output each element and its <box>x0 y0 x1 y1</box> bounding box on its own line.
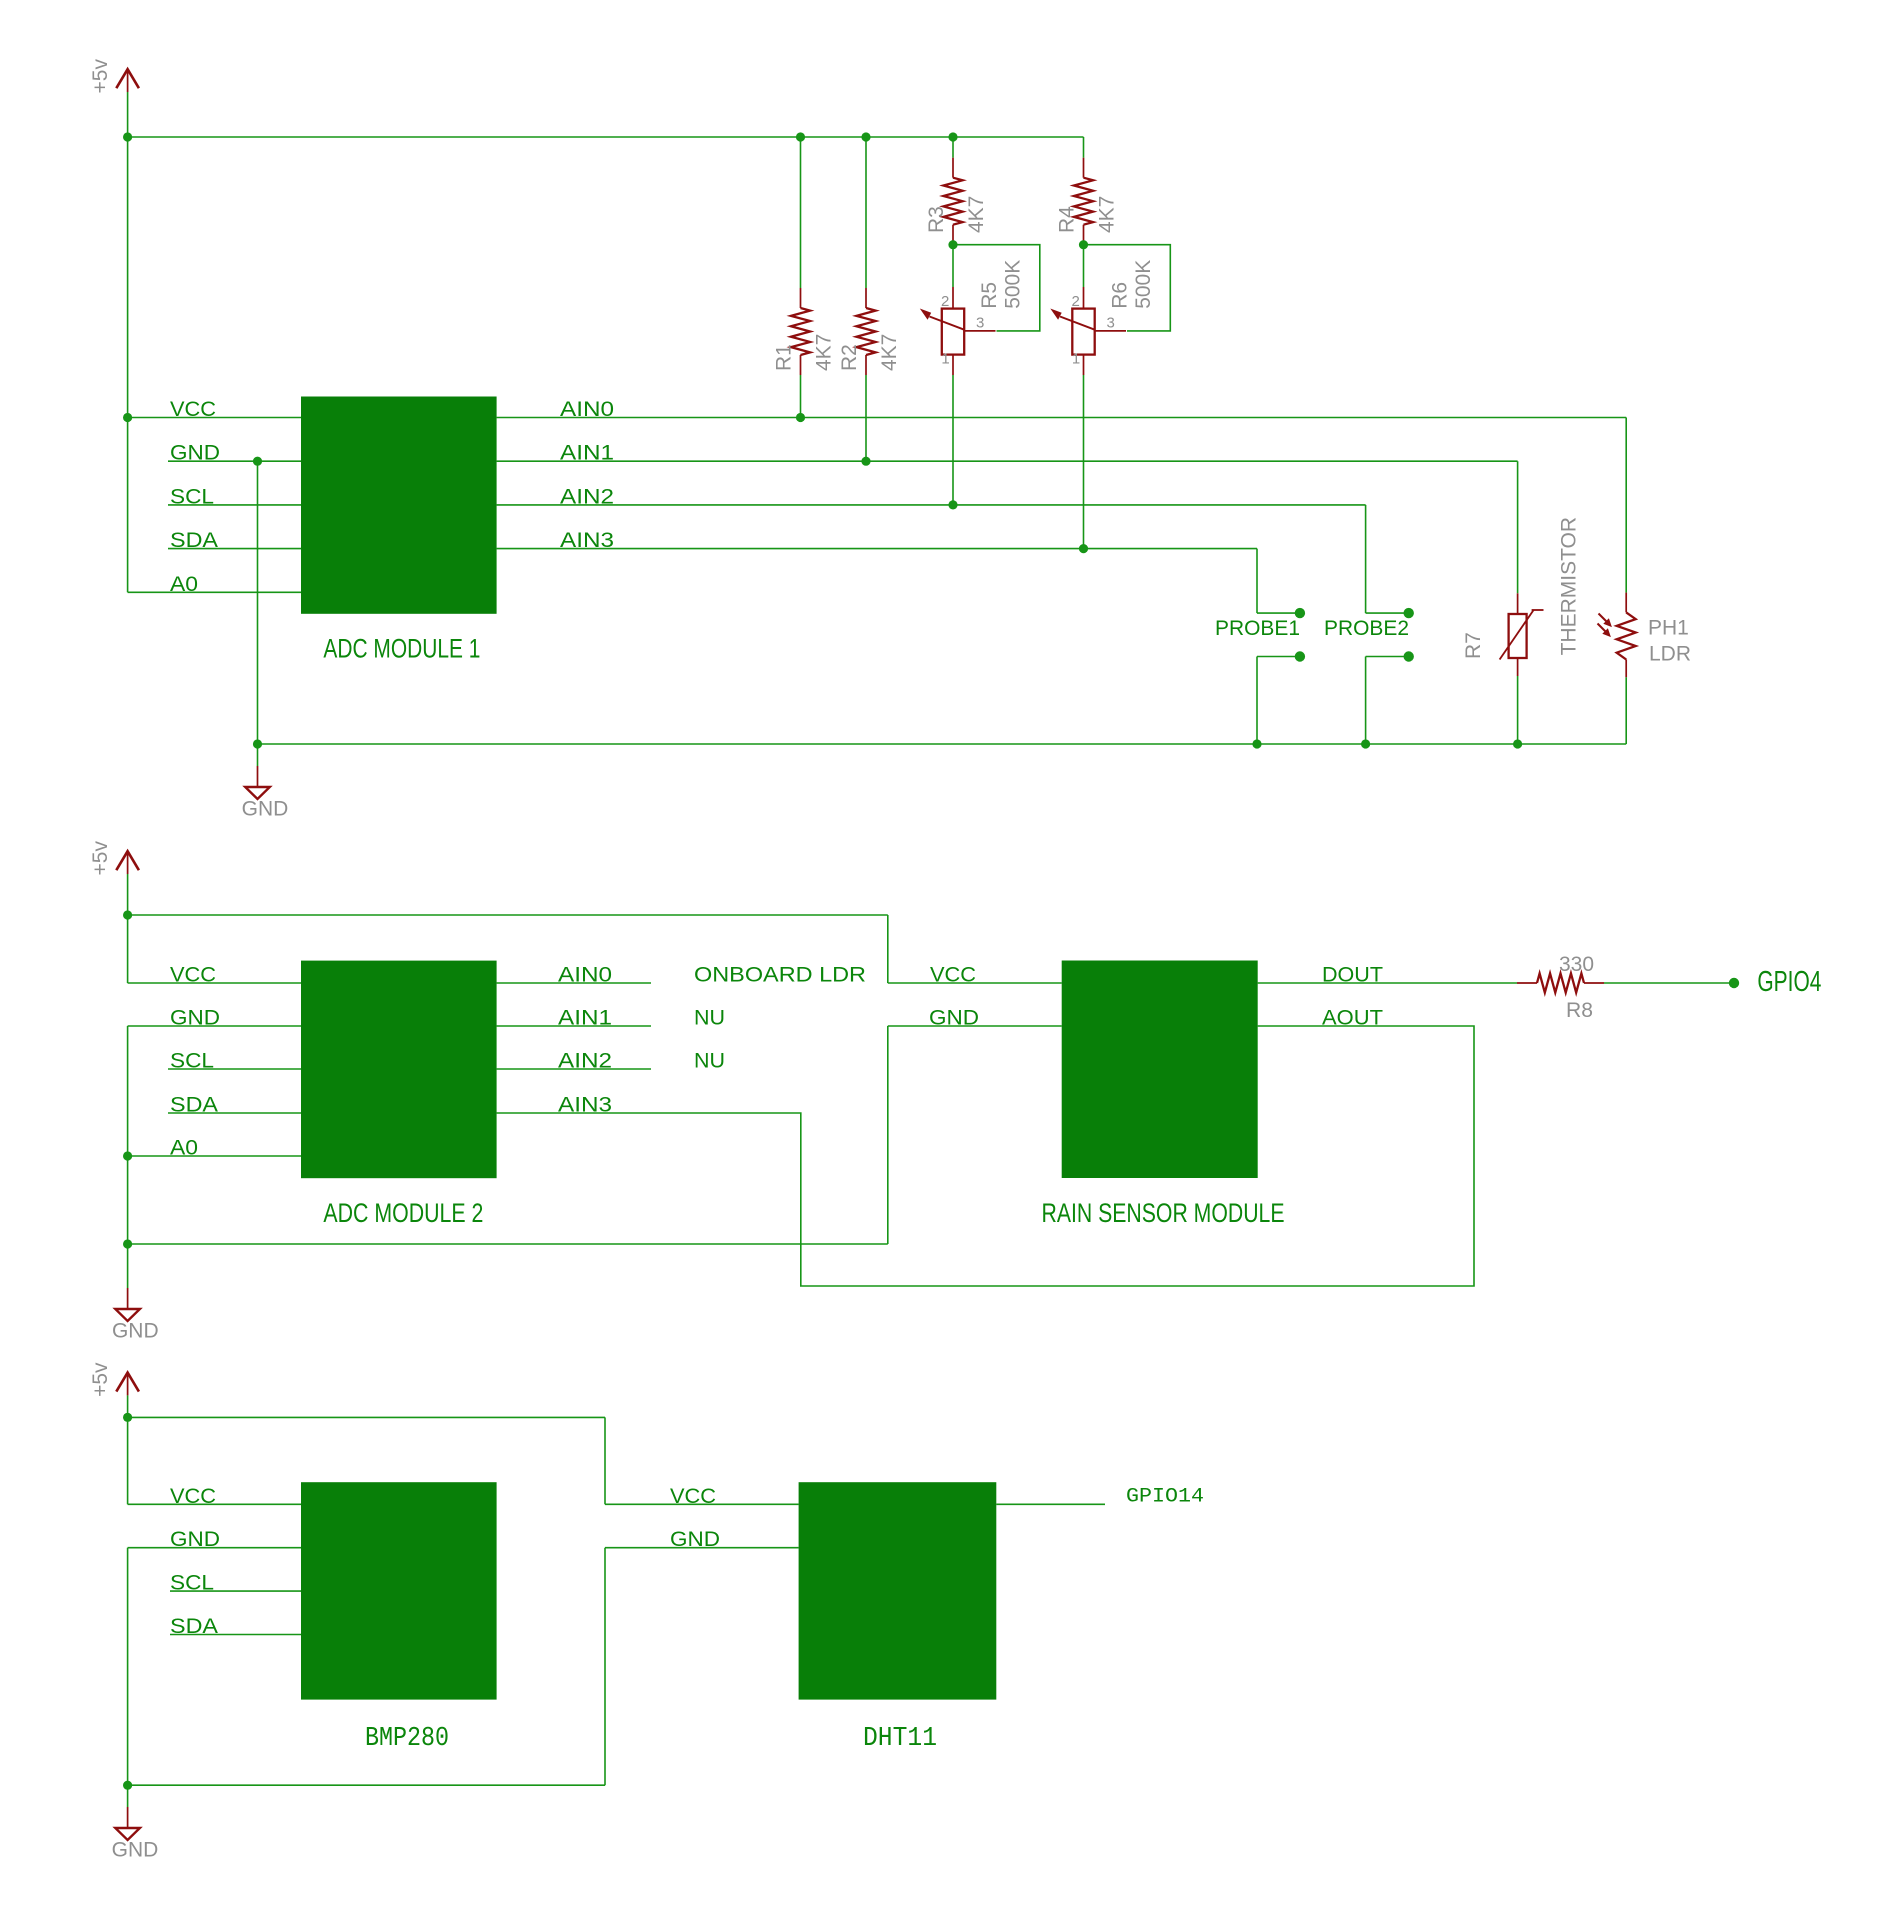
svg-text:SCL: SCL <box>170 485 214 508</box>
svg-text:BMP280: BMP280 <box>365 1724 449 1754</box>
svg-text:AIN0: AIN0 <box>558 964 612 987</box>
svg-text:AIN3: AIN3 <box>560 529 614 552</box>
svg-text:AIN2: AIN2 <box>560 485 614 508</box>
svg-text:330: 330 <box>1559 953 1594 976</box>
svg-text:SCL: SCL <box>170 1050 214 1073</box>
svg-text:R5: R5 <box>978 282 1001 309</box>
svg-text:2: 2 <box>1071 293 1079 310</box>
svg-text:ONBOARD LDR: ONBOARD LDR <box>694 964 866 987</box>
svg-text:GND: GND <box>242 798 289 821</box>
svg-text:AIN1: AIN1 <box>560 442 614 465</box>
svg-text:SDA: SDA <box>170 1094 218 1117</box>
svg-text:AIN3: AIN3 <box>558 1094 612 1117</box>
svg-text:500K: 500K <box>1132 260 1155 309</box>
svg-text:R8: R8 <box>1566 999 1593 1022</box>
svg-text:GND: GND <box>112 1320 159 1343</box>
svg-text:R2: R2 <box>838 344 861 371</box>
svg-text:NU: NU <box>694 1050 725 1073</box>
svg-text:VCC: VCC <box>670 1485 716 1508</box>
svg-text:AIN0: AIN0 <box>560 398 614 421</box>
svg-text:GND: GND <box>170 1007 220 1030</box>
svg-text:R6: R6 <box>1109 282 1132 309</box>
svg-text:DHT11: DHT11 <box>863 1724 937 1754</box>
svg-text:+5v: +5v <box>89 1362 112 1397</box>
svg-text:VCC: VCC <box>170 964 216 987</box>
svg-text:VCC: VCC <box>930 964 976 987</box>
svg-text:+5v: +5v <box>89 841 112 876</box>
svg-text:500K: 500K <box>1001 260 1024 309</box>
svg-text:PH1: PH1 <box>1648 617 1689 640</box>
svg-text:ADC MODULE 1: ADC MODULE 1 <box>323 633 480 663</box>
svg-text:AIN2: AIN2 <box>558 1050 612 1073</box>
svg-text:SCL: SCL <box>170 1572 214 1595</box>
svg-text:1: 1 <box>1072 351 1080 368</box>
svg-text:R7: R7 <box>1462 632 1485 659</box>
svg-text:GPIO4: GPIO4 <box>1757 966 1821 998</box>
svg-text:GND: GND <box>170 442 220 465</box>
svg-text:A0: A0 <box>170 573 198 596</box>
svg-text:NU: NU <box>694 1007 725 1030</box>
svg-text:4K7: 4K7 <box>813 334 836 371</box>
svg-text:RAIN SENSOR MODULE: RAIN SENSOR MODULE <box>1042 1198 1285 1228</box>
svg-text:4K7: 4K7 <box>1096 196 1119 233</box>
svg-text:3: 3 <box>976 315 984 332</box>
svg-text:A0: A0 <box>170 1137 198 1160</box>
svg-text:1: 1 <box>941 351 949 368</box>
svg-text:3: 3 <box>1107 315 1115 332</box>
svg-text:R3: R3 <box>925 206 948 233</box>
svg-text:GND: GND <box>929 1007 979 1030</box>
svg-text:ADC MODULE 2: ADC MODULE 2 <box>323 1198 483 1228</box>
svg-text:+5v: +5v <box>89 59 112 94</box>
svg-text:SDA: SDA <box>170 1615 218 1638</box>
svg-text:VCC: VCC <box>170 1485 216 1508</box>
svg-text:GND: GND <box>170 1528 220 1551</box>
svg-text:2: 2 <box>941 293 949 310</box>
svg-text:DOUT: DOUT <box>1322 964 1383 987</box>
svg-text:AIN1: AIN1 <box>558 1007 612 1030</box>
svg-text:4K7: 4K7 <box>965 196 988 233</box>
svg-text:GND: GND <box>112 1839 159 1862</box>
svg-text:R1: R1 <box>773 344 796 371</box>
svg-text:VCC: VCC <box>170 398 216 421</box>
svg-text:4K7: 4K7 <box>878 334 901 371</box>
svg-text:GND: GND <box>670 1528 720 1551</box>
svg-text:GPIO14: GPIO14 <box>1126 1486 1204 1509</box>
svg-text:THERMISTOR: THERMISTOR <box>1557 517 1580 655</box>
svg-text:PROBE1: PROBE1 <box>1215 617 1300 640</box>
svg-text:PROBE2: PROBE2 <box>1324 617 1409 640</box>
svg-text:AOUT: AOUT <box>1322 1007 1383 1030</box>
svg-text:R4: R4 <box>1056 206 1079 233</box>
svg-text:LDR: LDR <box>1649 642 1691 665</box>
svg-text:SDA: SDA <box>170 529 218 552</box>
